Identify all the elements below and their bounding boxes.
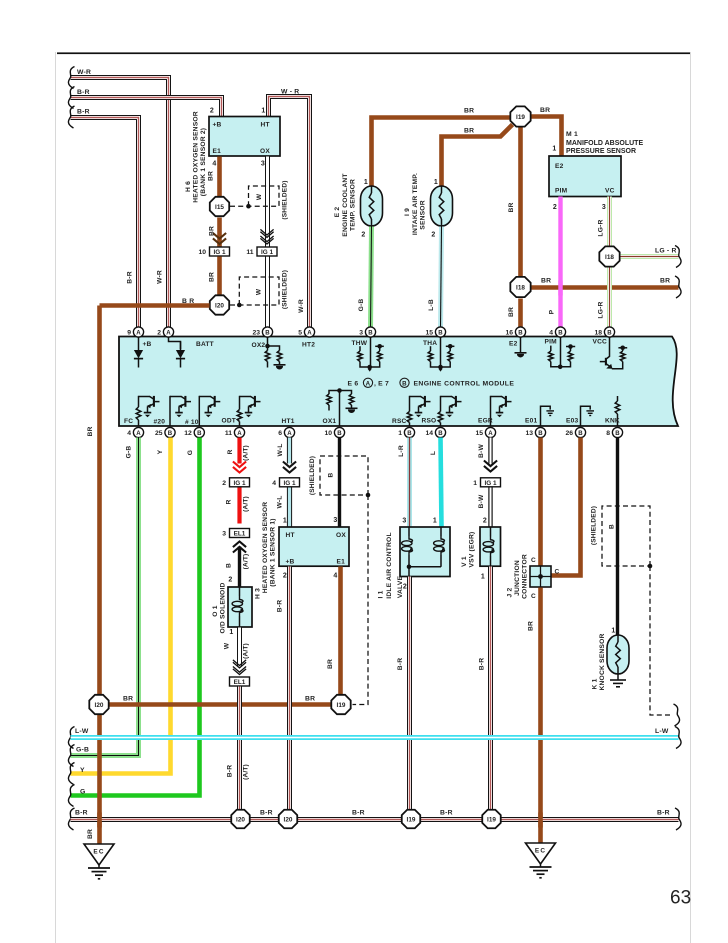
wire G from ECM pin 12 to left connector bbox=[71, 438, 200, 796]
wire BR from I20 to left BR trunk bbox=[100, 303, 210, 308]
svg-text:(BANK 1 SENSOR 2): (BANK 1 SENSOR 2) bbox=[200, 128, 207, 196]
svg-text:B: B bbox=[265, 329, 270, 336]
heated oxygen sensor H6 (bank 1 sensor 2) bbox=[209, 117, 280, 157]
svg-text:THA: THA bbox=[423, 340, 437, 347]
wire BR from H3 E1 to connector I19 bbox=[338, 567, 343, 695]
junction IG1 pin 11 bbox=[246, 247, 277, 256]
svg-text:B-R: B-R bbox=[75, 810, 88, 817]
wire BR from I15 to junction IG1 bbox=[217, 218, 222, 247]
svg-text:B: B bbox=[538, 430, 543, 437]
wire link pin2A to BATT diode bbox=[169, 337, 181, 350]
svg-text:9: 9 bbox=[127, 330, 131, 337]
svg-text:Y: Y bbox=[80, 767, 85, 774]
manifold absolute pressure sensor M1 bbox=[549, 156, 621, 197]
svg-text:W-L: W-L bbox=[277, 495, 284, 508]
svg-text:15: 15 bbox=[425, 330, 433, 337]
connector I20 on B-R rail 1 bbox=[231, 810, 249, 828]
wire B shielded from ECM pin 10 OX1 to H3 OX bbox=[338, 438, 341, 528]
svg-text:A: A bbox=[287, 430, 292, 437]
wire BR from ECM pin 13 E01 to J2 bbox=[538, 438, 543, 567]
connector arrow B-W into IG1 no.1 bbox=[484, 461, 497, 472]
ECM pin 16 B bbox=[505, 327, 525, 337]
wire B-R to ECM pin 9 +B bbox=[71, 118, 139, 329]
page left edge bbox=[54, 52, 57, 943]
svg-text:(BANK 1 SENSOR 1): (BANK 1 SENSOR 1) bbox=[270, 518, 277, 586]
svg-text:KNK: KNK bbox=[605, 418, 620, 425]
svg-text:BATT: BATT bbox=[196, 341, 214, 348]
svg-text:12: 12 bbox=[184, 430, 192, 437]
svg-text:26: 26 bbox=[565, 430, 573, 437]
svg-text:W-R: W-R bbox=[77, 69, 91, 76]
ECM pin 26 B bbox=[565, 427, 585, 437]
junction connector IG1 pin 1 bbox=[473, 478, 500, 487]
svg-text:B: B bbox=[226, 563, 233, 568]
knock sensor ground bbox=[617, 674, 619, 680]
svg-text:EL1: EL1 bbox=[234, 531, 246, 538]
svg-text:I15: I15 bbox=[215, 204, 224, 211]
svg-text:W: W bbox=[224, 642, 231, 649]
svg-text:V 1: V 1 bbox=[461, 556, 468, 567]
svg-text:B: B bbox=[337, 430, 342, 437]
svg-text:3: 3 bbox=[359, 330, 363, 337]
brace shield drain right edge bbox=[674, 704, 680, 726]
svg-text:BR: BR bbox=[123, 696, 133, 703]
svg-text:B-R: B-R bbox=[227, 765, 234, 778]
svg-text:, E 7: , E 7 bbox=[374, 381, 389, 388]
wire L-W rail bbox=[71, 735, 679, 740]
svg-text:I19: I19 bbox=[516, 114, 525, 121]
connector I18 left bbox=[510, 277, 530, 297]
svg-text:A: A bbox=[237, 430, 242, 437]
svg-text:MANIFOLD ABSOLUTE: MANIFOLD ABSOLUTE bbox=[566, 140, 643, 147]
svg-text:B: B bbox=[168, 430, 173, 437]
svg-text:B-R: B-R bbox=[77, 109, 90, 116]
wire R A/T from ECM pin 11 ODT to IG1 bbox=[237, 438, 241, 464]
connector arrow R into IG1 no.2 bbox=[233, 462, 246, 473]
svg-text:J 2: J 2 bbox=[507, 587, 514, 597]
svg-text:A: A bbox=[366, 380, 371, 387]
wire LG-R from I18 to right edge bbox=[621, 254, 679, 259]
svg-text:B-R: B-R bbox=[397, 658, 404, 671]
svg-text:1: 1 bbox=[398, 430, 402, 437]
svg-text:W-R: W-R bbox=[298, 299, 305, 313]
ECM pin 25 B bbox=[155, 427, 175, 437]
svg-text:18: 18 bbox=[594, 330, 602, 337]
shield box around W wire upper bbox=[249, 186, 280, 206]
svg-text:E1: E1 bbox=[213, 148, 222, 155]
VSV coil bbox=[490, 527, 492, 537]
svg-text:B-R: B-R bbox=[479, 658, 486, 671]
svg-text:I18: I18 bbox=[516, 284, 525, 291]
OX2 input circuit bbox=[267, 337, 269, 347]
wire B-R to H6 +B pin 2 bbox=[71, 98, 222, 117]
svg-text:1: 1 bbox=[481, 574, 485, 581]
svg-text:25: 25 bbox=[155, 430, 163, 437]
ECM pin 4 A bbox=[127, 427, 143, 437]
svg-text:2: 2 bbox=[553, 204, 557, 211]
svg-text:B: B bbox=[607, 329, 612, 336]
wire B-R overlay at BR rail crossing 1 bbox=[237, 699, 242, 712]
svg-text:BR: BR bbox=[508, 307, 515, 317]
idle air control valve I1 bbox=[400, 527, 450, 577]
svg-text:W - R: W - R bbox=[281, 89, 299, 96]
svg-text:R: R bbox=[227, 449, 234, 454]
svg-text:10: 10 bbox=[324, 430, 332, 437]
svg-text:BR: BR bbox=[87, 829, 94, 839]
svg-text:B: B bbox=[407, 430, 412, 437]
svg-text:E 2: E 2 bbox=[334, 207, 341, 218]
connector brace L-W left bbox=[68, 727, 74, 749]
svg-text:BR: BR bbox=[528, 621, 535, 631]
shield box around B wire H3 bbox=[320, 456, 368, 495]
svg-text:B-R: B-R bbox=[77, 89, 90, 96]
svg-text:+B: +B bbox=[213, 122, 222, 129]
svg-text:1: 1 bbox=[473, 480, 477, 487]
svg-text:W: W bbox=[256, 288, 263, 295]
svg-text:EL1: EL1 bbox=[234, 679, 246, 686]
svg-text:THW: THW bbox=[352, 340, 368, 347]
svg-text:BR: BR bbox=[209, 226, 216, 236]
svg-text:RSO: RSO bbox=[422, 418, 437, 425]
svg-text:OX: OX bbox=[260, 148, 270, 155]
ECM pin 9 A bbox=[127, 327, 143, 337]
svg-text:(SHIELDED): (SHIELDED) bbox=[282, 270, 289, 309]
svg-text:3: 3 bbox=[333, 517, 337, 524]
wire BR from ECM pin 26 E03 to J2 bbox=[552, 438, 581, 576]
OD solenoid O1 bbox=[228, 587, 252, 627]
wire B-W from IG1 to VSV pin 2 bbox=[488, 488, 492, 528]
svg-text:HEATED OXYGEN SENSOR: HEATED OXYGEN SENSOR bbox=[262, 502, 269, 594]
svg-text:TEMP. SENSOR: TEMP. SENSOR bbox=[350, 179, 357, 231]
svg-text:BR: BR bbox=[464, 108, 474, 115]
svg-text:LG-R: LG-R bbox=[598, 301, 605, 318]
svg-text:+B: +B bbox=[286, 559, 295, 566]
svg-text:I19: I19 bbox=[407, 816, 416, 823]
wire BR from H6 E1 to connector I15 bbox=[217, 157, 222, 198]
connector arrow W-L into IG1 no.4 bbox=[283, 462, 296, 473]
heated oxygen sensor H3 (bank 1 sensor 1) bbox=[279, 527, 349, 566]
svg-text:4: 4 bbox=[549, 330, 553, 337]
connector arrow W into IG1 no.11 bbox=[260, 229, 273, 244]
svg-text:E2: E2 bbox=[555, 163, 564, 170]
connector I18 right bbox=[599, 246, 619, 266]
svg-text:B-R: B-R bbox=[440, 810, 453, 817]
svg-text:3: 3 bbox=[261, 161, 265, 168]
svg-text:1: 1 bbox=[433, 518, 437, 525]
wire B-R from IAC pin 2 to connector I19 rail bbox=[407, 577, 412, 810]
ECM pin 13 B bbox=[525, 427, 545, 437]
connector brace B-R upper bbox=[68, 87, 74, 109]
ground EC right bbox=[526, 843, 556, 878]
svg-text:W-R: W-R bbox=[157, 270, 164, 284]
shield drain from I15 bbox=[230, 205, 248, 207]
svg-text:IG 1: IG 1 bbox=[484, 480, 497, 487]
shield drain from I20 bbox=[230, 304, 239, 306]
svg-text:P: P bbox=[549, 309, 556, 314]
svg-text:L-W: L-W bbox=[655, 728, 669, 735]
svg-text:C: C bbox=[531, 557, 536, 564]
PIM input circuit bbox=[560, 337, 562, 367]
svg-text:5: 5 bbox=[298, 330, 302, 337]
brace B-R right edge bbox=[675, 808, 681, 830]
svg-text:B-R: B-R bbox=[260, 810, 273, 817]
wire BR from I19 to MAP sensor pin 1 bbox=[532, 117, 562, 157]
E01 ground inside ECM bbox=[541, 406, 551, 426]
svg-text:BR: BR bbox=[209, 272, 216, 282]
svg-text:B: B bbox=[328, 472, 335, 477]
resistor THA right bbox=[448, 351, 453, 362]
wire B shielded from ECM pin 8 KNK to knock sensor bbox=[616, 438, 619, 636]
ECM pin 6 A bbox=[278, 427, 294, 437]
svg-text:I 9: I 9 bbox=[404, 208, 411, 216]
svg-text:B-R: B-R bbox=[352, 810, 365, 817]
svg-text:I20: I20 bbox=[284, 816, 293, 823]
intake air temp sensor I9 bbox=[431, 186, 453, 226]
svg-text:HT2: HT2 bbox=[302, 342, 315, 349]
svg-text:OX: OX bbox=[336, 532, 346, 539]
wire BR J2 overlay at B-R rail bbox=[538, 813, 543, 828]
connector brace W-R bbox=[68, 67, 74, 89]
svg-text:2: 2 bbox=[483, 518, 487, 525]
page right edge bbox=[689, 52, 692, 943]
ground E2 bbox=[515, 353, 527, 358]
svg-text:BR: BR bbox=[508, 202, 515, 212]
ground OX2 bbox=[274, 365, 286, 370]
junction connector EL1 lower bbox=[230, 677, 250, 686]
wire W-L from IG1 to H3 HT bbox=[287, 488, 292, 528]
svg-text:W-L: W-L bbox=[277, 443, 284, 456]
connector brace B-R left bbox=[68, 808, 74, 830]
svg-text:(SHIELDED): (SHIELDED) bbox=[591, 506, 598, 545]
wire B-R from H3 +B to connector I20 rail bbox=[287, 567, 292, 810]
wire BR from intake air temp sensor to I19 bbox=[442, 125, 513, 187]
VSV EGR valve V1 bbox=[480, 527, 501, 566]
svg-text:E01: E01 bbox=[525, 418, 537, 425]
wire W-R from H6 HT to ECM pin 5 HT2 bbox=[269, 97, 310, 329]
svg-text:HT1: HT1 bbox=[282, 418, 295, 425]
wire BR from coolant sensor to I19 bbox=[372, 118, 510, 187]
svg-text:1: 1 bbox=[261, 108, 265, 115]
connector brace G-B left bbox=[68, 745, 74, 767]
svg-text:HT: HT bbox=[261, 122, 270, 129]
svg-text:23: 23 bbox=[252, 330, 260, 337]
svg-text:+B: +B bbox=[143, 341, 152, 348]
svg-text:O 1: O 1 bbox=[212, 605, 219, 616]
svg-text:G-B: G-B bbox=[358, 299, 365, 312]
svg-text:K 1: K 1 bbox=[592, 678, 599, 689]
THA input circuit bbox=[440, 337, 442, 368]
svg-text:4: 4 bbox=[212, 161, 216, 168]
svg-text:B: B bbox=[518, 329, 523, 336]
svg-text:E2: E2 bbox=[509, 341, 518, 348]
page top border bbox=[57, 52, 690, 54]
svg-text:2: 2 bbox=[283, 573, 287, 580]
svg-text:W: W bbox=[256, 193, 263, 200]
ECM pin 15 B bbox=[425, 327, 445, 337]
svg-text:BR: BR bbox=[464, 128, 474, 135]
VCC regulator circuit bbox=[606, 337, 610, 360]
ECM pin 8 B bbox=[606, 427, 622, 437]
OX1 input circuit bbox=[339, 391, 341, 427]
ground OX1 bbox=[346, 408, 358, 413]
connector I19 on B-R rail 1 bbox=[402, 810, 420, 828]
svg-text:16: 16 bbox=[505, 330, 513, 337]
svg-text:IG 1: IG 1 bbox=[213, 249, 226, 256]
svg-text:3: 3 bbox=[222, 531, 226, 538]
wire W A/T from OD solenoid to EL1 bbox=[237, 628, 242, 667]
svg-text:IG 1: IG 1 bbox=[233, 480, 246, 487]
shield box around knock sensor wire bbox=[602, 506, 650, 566]
wire BR from I19 down to I18 bbox=[518, 128, 523, 277]
ECM pin 14 B bbox=[425, 427, 445, 437]
engine control module ECM box bbox=[119, 337, 678, 427]
connector arrow into IG1 no.10 bbox=[213, 233, 226, 244]
svg-text:OX1: OX1 bbox=[323, 418, 337, 425]
ECM pin 15 A bbox=[475, 427, 495, 437]
svg-text:2: 2 bbox=[222, 480, 226, 487]
svg-text:LG-R: LG-R bbox=[598, 219, 605, 236]
svg-text:C: C bbox=[531, 593, 536, 600]
OD solenoid coil bbox=[239, 587, 241, 596]
junction connector EL1 pin 3 bbox=[222, 529, 249, 538]
svg-text:E03: E03 bbox=[566, 418, 578, 425]
svg-text:A: A bbox=[488, 430, 493, 437]
connector brace G left bbox=[68, 785, 74, 807]
svg-text:1: 1 bbox=[552, 146, 556, 153]
connector I15 bbox=[210, 197, 229, 216]
wire LG-R from I18 to ECM pin 18 VCC bbox=[607, 268, 612, 329]
svg-text:SENSOR: SENSOR bbox=[420, 200, 427, 229]
connector I20 bottom left bbox=[89, 695, 108, 714]
wire W-L from ECM pin 6 HT1 to IG1 bbox=[287, 438, 292, 464]
ECM pin 18 B bbox=[594, 327, 614, 337]
svg-text:ENGINE COOLANT: ENGINE COOLANT bbox=[342, 173, 349, 237]
wire R from IG1 to EL1 bbox=[237, 488, 241, 524]
svg-text:H 3: H 3 bbox=[255, 588, 262, 599]
shield drain H3 to I19 bbox=[353, 495, 369, 705]
svg-text:BR: BR bbox=[208, 171, 215, 181]
resistor OX1 right bbox=[349, 394, 354, 405]
svg-text:B-R: B-R bbox=[127, 271, 134, 284]
diode at ECM BATT bbox=[176, 342, 185, 368]
svg-text:4: 4 bbox=[127, 430, 131, 437]
svg-text:14: 14 bbox=[425, 430, 433, 437]
svg-text:B: B bbox=[402, 380, 407, 387]
svg-text:G-B: G-B bbox=[76, 747, 89, 754]
svg-text:B: B bbox=[558, 329, 563, 336]
connector arrow B into EL1 bbox=[233, 542, 246, 553]
KNK input circuit bbox=[617, 414, 619, 426]
svg-text:B-R: B-R bbox=[277, 600, 284, 613]
svg-text:ODT: ODT bbox=[222, 418, 237, 425]
svg-text:A: A bbox=[136, 430, 141, 437]
svg-text:B R: B R bbox=[182, 298, 194, 305]
junction IG1 pin 10 bbox=[198, 247, 229, 256]
E03 ground inside ECM bbox=[581, 406, 591, 426]
wire B-W from ECM pin 15 EGR to IG1 bbox=[488, 438, 492, 464]
wire P from MAP PIM to ECM pin 4 PIM bbox=[558, 197, 562, 329]
svg-text:IG 1: IG 1 bbox=[261, 249, 274, 256]
svg-text:(A/T): (A/T) bbox=[243, 554, 250, 570]
svg-text:11: 11 bbox=[225, 430, 232, 437]
wire L-R from ECM pin 1 RSC to IAC pin 3 bbox=[407, 438, 412, 528]
resistor PIM left bbox=[549, 351, 554, 362]
svg-text:2: 2 bbox=[157, 330, 161, 337]
ECM pin 3 B bbox=[359, 327, 375, 337]
svg-text:3: 3 bbox=[402, 518, 406, 525]
wire BR trunk left from I20 to EC ground bbox=[97, 306, 102, 845]
resistor OX2 left bbox=[265, 351, 270, 362]
svg-text:INTAKE AIR TEMP.: INTAKE AIR TEMP. bbox=[412, 173, 419, 235]
svg-text:O/D SOLENOID: O/D SOLENOID bbox=[220, 582, 227, 633]
svg-text:HT: HT bbox=[286, 532, 295, 539]
svg-text:4: 4 bbox=[333, 573, 337, 580]
svg-text:I19: I19 bbox=[337, 702, 346, 709]
svg-text:(SHIELDED): (SHIELDED) bbox=[309, 456, 316, 495]
svg-text:E 6: E 6 bbox=[348, 381, 359, 388]
E2 ground inside ECM bbox=[520, 337, 522, 353]
wire W shielded from H6 OX to ECM pin 23 OX2 bbox=[265, 157, 270, 329]
svg-text:FC: FC bbox=[124, 418, 133, 425]
wire L from ECM pin 14 RSO to IAC pin 1 bbox=[441, 438, 442, 528]
shield box around W wire lower bbox=[239, 277, 279, 305]
svg-text:VALVE: VALVE bbox=[397, 576, 404, 599]
svg-text:6: 6 bbox=[278, 430, 282, 437]
svg-text:I20: I20 bbox=[95, 702, 104, 709]
connector I19 bbox=[510, 106, 530, 126]
svg-text:B: B bbox=[609, 524, 616, 529]
svg-text:G: G bbox=[187, 450, 194, 455]
resistor VCC bbox=[620, 351, 625, 362]
junction connector IG1 pin 4 bbox=[272, 478, 299, 487]
svg-text:VSV (EGR): VSV (EGR) bbox=[469, 532, 476, 568]
svg-text:PRESSURE SENSOR: PRESSURE SENSOR bbox=[566, 148, 636, 155]
wire L-B from intake air temp sensor to ECM pin 15 THA bbox=[441, 227, 442, 329]
resistor OX1 left bbox=[327, 394, 332, 405]
svg-text:Y: Y bbox=[157, 449, 164, 454]
svg-text:BR: BR bbox=[305, 696, 315, 703]
connector I19 bottom mid bbox=[331, 695, 350, 714]
ECM pin 12 B bbox=[184, 427, 204, 437]
wire G-B from coolant sensor to ECM pin 3 THW bbox=[371, 227, 372, 329]
diode at ECM +B bbox=[134, 337, 143, 368]
svg-text:R: R bbox=[226, 499, 233, 504]
svg-text:PIM: PIM bbox=[545, 339, 558, 346]
ECM pin 23 B bbox=[252, 327, 272, 337]
knock sensor K1 bbox=[607, 635, 629, 674]
svg-text:IDLE AIR CONTROL: IDLE AIR CONTROL bbox=[386, 532, 393, 598]
wire BR from I18 to ECM pin 16 E2 bbox=[518, 299, 523, 329]
svg-text:B: B bbox=[197, 430, 202, 437]
wire B-R from VSV pin 1 to connector I19 rail bbox=[488, 567, 493, 810]
svg-text:B-R: B-R bbox=[657, 810, 670, 817]
wire LG-R from MAP VC to I18 bbox=[607, 197, 612, 246]
ECM pin 2 A bbox=[157, 327, 173, 337]
svg-text:M 1: M 1 bbox=[566, 131, 578, 138]
svg-text:2: 2 bbox=[431, 232, 435, 239]
wire B-R overlay at BR rail crossing 2 bbox=[287, 699, 292, 712]
svg-text:EGR: EGR bbox=[478, 418, 493, 425]
svg-text:3: 3 bbox=[602, 204, 606, 211]
svg-text:EC: EC bbox=[93, 849, 104, 856]
svg-text:10: 10 bbox=[198, 249, 206, 256]
ECM pin 1 B bbox=[398, 427, 414, 437]
resistor THW right bbox=[377, 351, 382, 362]
resistor THA left bbox=[428, 351, 433, 362]
svg-text:2: 2 bbox=[228, 577, 232, 584]
wire Y from ECM pin 25 to left connector bbox=[71, 438, 171, 774]
svg-text:11: 11 bbox=[246, 249, 253, 256]
